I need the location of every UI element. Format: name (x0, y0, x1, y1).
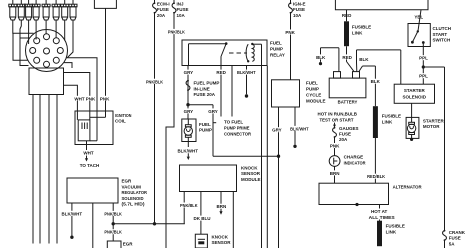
distributor pickup wire 4 (56, 95, 58, 244)
wire PNK to charge indicator (334, 137, 336, 155)
distributor cap terminal (bottom) (44, 61, 50, 67)
fuse CRANK 5A (441, 230, 448, 241)
label RED (342, 54, 352, 60)
distributor cap terminal (top) (44, 34, 50, 40)
svg-text:BRN: BRN (217, 204, 227, 209)
fuel pump box (182, 119, 196, 142)
svg-text:20A: 20A (339, 137, 348, 142)
spark plug wire connector 2 (17, 0, 25, 20)
wire BLK/WHT cycle module ground (293, 107, 296, 148)
svg-text:PNK: PNK (100, 96, 110, 101)
svg-text:ECM-I: ECM-I (157, 1, 170, 6)
label STARTER SOLENOID (403, 88, 427, 99)
svg-text:COIL: COIL (115, 119, 126, 124)
battery (329, 72, 366, 98)
svg-text:LINK: LINK (386, 229, 397, 234)
label GAUGES FUSE 20A (339, 126, 359, 142)
fuse INJ 10A (172, 0, 176, 14)
label FUEL PUMP (199, 122, 212, 133)
svg-text:PUMP: PUMP (199, 128, 212, 133)
label PPL (419, 73, 429, 79)
wire RED from ignition switch (346, 10, 348, 21)
wire BLK/WHT EGR ground (70, 203, 73, 239)
svg-text:YEL: YEL (414, 14, 423, 19)
svg-text:FUSE 20A: FUSE 20A (194, 92, 216, 97)
spark plug wire connector 1 (9, 0, 17, 20)
label IGN-E FUSE 10A (293, 1, 306, 18)
ignition coil box (75, 111, 113, 145)
svg-text:(5.7L H/D): (5.7L H/D) (122, 202, 146, 207)
wire INJ fuse down (166, 13, 174, 248)
wire GRY tap to prime connector (186, 103, 216, 156)
wire PNK IGN-E fuse to cycle module (290, 13, 292, 80)
fuse ECM-I 20A (153, 0, 157, 14)
wire PPL branch to crank fuse (423, 67, 444, 248)
label RED (216, 70, 227, 76)
svg-text:STARTER: STARTER (423, 118, 445, 123)
wire RED relay output (220, 66, 222, 117)
label PNK (100, 96, 110, 102)
spark plug wire 4 (35, 20, 37, 40)
label PNK/BLK (180, 203, 199, 209)
svg-text:SWITCH: SWITCH (433, 38, 451, 43)
svg-text:PNK/BLK: PNK/BLK (180, 203, 198, 208)
starter motor (406, 117, 419, 138)
svg-text:RED: RED (342, 55, 352, 60)
distributor pickup wire 1 (32, 95, 34, 244)
label CHARGE INDICATOR (344, 155, 367, 166)
svg-text:TEST OR START: TEST OR START (320, 117, 354, 122)
ignition coil primary winding (78, 120, 90, 141)
svg-text:FUSE: FUSE (293, 7, 305, 12)
label PNK (285, 30, 296, 36)
wire alternator output down (379, 205, 381, 221)
wire distributor to coil (lower) (64, 85, 78, 120)
fuse GAUGES 20A (333, 127, 337, 138)
fuel pump motor symbol (184, 119, 192, 142)
svg-text:FUSE: FUSE (339, 132, 351, 137)
svg-text:SOLENOID: SOLENOID (403, 94, 427, 99)
svg-text:TO FUEL: TO FUEL (224, 120, 243, 125)
svg-text:BRN: BRN (330, 171, 340, 176)
distributor body (29, 68, 64, 95)
coil tach output wire (86, 141, 88, 150)
label PNK (86, 96, 96, 102)
svg-text:GRY: GRY (184, 109, 194, 114)
alternator ground junction dot (355, 203, 358, 206)
spark plug wire connector 3 (25, 0, 33, 20)
label FUEL PUMP CYCLE MODULE (306, 81, 326, 104)
wire PNK/BLK from ECM-I fuse (154, 13, 156, 224)
label BRN (329, 170, 340, 176)
svg-text:ALL TIMES: ALL TIMES (369, 215, 395, 220)
label FUSIBLE LINK (352, 25, 371, 36)
label PNK/BLK (146, 79, 164, 85)
label HOT IN RUN,BULB TEST OR START (318, 112, 358, 123)
svg-text:FUSIBLE: FUSIBLE (386, 224, 405, 229)
wire BLK battery to starter solenoid (357, 50, 401, 72)
svg-text:SOLENOID: SOLENOID (122, 196, 145, 201)
knock sensor module box (180, 165, 237, 192)
label FUSIBLE LINK (386, 224, 405, 235)
spark plug wire connector 6 (52, 0, 60, 20)
label IGNITION COIL (115, 113, 131, 124)
label WHT (74, 96, 84, 102)
svg-text:FUSIBLE: FUSIBLE (382, 114, 401, 119)
gauges feed arrow (333, 123, 336, 128)
fusible link (RED) (344, 21, 349, 46)
distributor cap (26, 30, 68, 72)
svg-text:FUSIBLE: FUSIBLE (352, 25, 371, 30)
wire cap stub (64, 63, 72, 68)
spark plug wire 3 (28, 20, 30, 44)
wire BRN knock module arrow (219, 192, 222, 215)
spark plug wire 7 (64, 20, 66, 41)
svg-text:PNK/BLK: PNK/BLK (168, 30, 186, 35)
wire PNK/BLK EGR to TVS (112, 203, 115, 241)
label FUEL PUMP RELAY (270, 40, 285, 57)
svg-text:IGN-E: IGN-E (293, 1, 306, 6)
label ECM-I FUSE 20A (157, 1, 170, 18)
svg-text:EGR: EGR (122, 179, 133, 184)
distributor cap terminal (right) (57, 48, 63, 54)
svg-text:CLUTCH: CLUTCH (433, 26, 452, 31)
EGR TVS box (107, 241, 121, 248)
wire EGR solenoid middle (92, 203, 94, 248)
ignition switch box (top) (335, 0, 428, 10)
charge indicator (329, 156, 340, 167)
wire cap to coil (PNK upper) (66, 58, 97, 111)
label GRY (183, 70, 193, 76)
wire BLK battery to fusible link (359, 66, 376, 106)
wire BLK/WHT relay ground (245, 66, 248, 98)
distributor cap terminal (lower left) (34, 57, 40, 63)
svg-text:FUEL: FUEL (306, 81, 318, 86)
svg-text:FUSE: FUSE (157, 7, 169, 12)
wire BLK/WHT pump ground arrow (187, 142, 190, 161)
wire PNK module to coil (105, 8, 107, 111)
svg-text:SENSOR: SENSOR (241, 171, 261, 176)
svg-text:KNOCK: KNOCK (241, 165, 258, 170)
wire RED to battery positive (347, 46, 355, 71)
svg-text:GAUGES: GAUGES (339, 126, 359, 131)
svg-text:BLK/WHT: BLK/WHT (290, 126, 309, 131)
svg-text:PUMP PRIME: PUMP PRIME (224, 126, 250, 131)
label KNOCK SENSOR MODULE (241, 165, 261, 182)
svg-text:PNK/BLK: PNK/BLK (146, 79, 164, 84)
label GRY (183, 108, 193, 114)
svg-text:CONNECTOR: CONNECTOR (224, 132, 252, 137)
label BLK (316, 54, 326, 60)
fuel pump relay box (182, 40, 267, 66)
svg-text:MOTOR: MOTOR (423, 124, 440, 129)
svg-text:FUEL: FUEL (270, 40, 282, 45)
label BLK/WHT (290, 126, 310, 131)
svg-text:REGULATOR: REGULATOR (122, 190, 148, 195)
svg-text:RED/BLK: RED/BLK (367, 174, 386, 179)
spark plug wire 1 (loops to cap left) (13, 20, 34, 60)
label RED/BLK (367, 174, 386, 180)
svg-text:VACUUM: VACUUM (122, 184, 142, 189)
svg-text:RELAY: RELAY (270, 52, 285, 57)
svg-text:HOT IN RUN,BULB: HOT IN RUN,BULB (318, 112, 358, 117)
svg-text:CRANK: CRANK (449, 230, 466, 235)
label PNK/BLK (104, 211, 123, 217)
svg-text:STARTER: STARTER (404, 88, 426, 93)
svg-text:KNOCK: KNOCK (212, 234, 229, 239)
fuel pump cycle module box (272, 80, 300, 107)
spark plug wire connector 4 (32, 0, 40, 20)
svg-text:FUSE: FUSE (449, 236, 461, 241)
label BLK/WHT (61, 211, 83, 217)
svg-text:PNK: PNK (86, 96, 96, 101)
label DK BLU (194, 216, 211, 222)
svg-text:EGR: EGR (123, 242, 134, 247)
relay coil (246, 43, 261, 66)
label STARTER MOTOR (423, 118, 445, 129)
svg-text:GRY: GRY (272, 128, 282, 133)
knock sensor (195, 234, 207, 248)
svg-text:PUMP: PUMP (270, 46, 283, 51)
label CRANK FUSE 5A (449, 230, 466, 247)
wire relay right down (266, 66, 268, 248)
svg-text:HOT AT: HOT AT (371, 209, 387, 214)
distributor cap terminal (upper left) (34, 38, 40, 44)
fusible link (alternator) (377, 221, 382, 247)
svg-text:FUEL: FUEL (199, 122, 211, 127)
distributor cap terminal (left) (30, 48, 36, 54)
wire knock module inner output (232, 192, 234, 248)
svg-text:PNK: PNK (330, 144, 340, 149)
label FUEL PUMP IN-LINE FUSE 20A (194, 81, 220, 97)
wire DK BLU to knock sensor (200, 192, 202, 235)
coil internal connection (90, 111, 106, 141)
label WHT (83, 150, 94, 156)
label GRY (272, 127, 282, 133)
wire relay coil feed down (261, 66, 263, 248)
spark plug wire connector 5 (42, 0, 50, 20)
label PNK/BLK (167, 29, 187, 35)
label CLUTCH START SWITCH (433, 26, 452, 42)
svg-text:BLK/WHT: BLK/WHT (62, 211, 83, 216)
wire bus PNK/BLK junction (113, 222, 185, 225)
svg-text:10A: 10A (177, 13, 186, 18)
svg-text:TO TACH: TO TACH (80, 163, 100, 168)
svg-text:5A: 5A (449, 241, 456, 246)
label YEL (413, 14, 425, 20)
spark plug wire 8 (68, 20, 74, 58)
label BLK (371, 79, 381, 85)
wire GRY cycle module down (213, 107, 280, 248)
svg-text:LINK: LINK (352, 30, 363, 35)
wire GRY relay to pump fuse (187, 66, 189, 120)
wire YEL ignition switch to clutch switch (418, 10, 421, 31)
svg-text:PNK/BLK: PNK/BLK (104, 230, 122, 235)
svg-text:WHT: WHT (83, 151, 93, 156)
label BLK/WHT (177, 148, 199, 154)
wire solenoid to starter motor (411, 103, 413, 117)
svg-text:IGNITION: IGNITION (115, 113, 131, 118)
svg-text:PNK: PNK (285, 30, 295, 35)
wire PPL clutch switch down (422, 47, 425, 85)
svg-text:BLK: BLK (316, 55, 326, 60)
svg-text:PNK/BLK: PNK/BLK (104, 211, 122, 216)
svg-text:PUMP: PUMP (306, 87, 319, 92)
relay dashed link (229, 52, 247, 54)
wire BRN to alternator (334, 166, 336, 183)
spark plug wire connector 8 (69, 0, 77, 20)
tach wire arrow (85, 156, 88, 162)
distributor cap center terminal (44, 48, 50, 54)
distributor cap terminal (upper right) (53, 38, 59, 44)
label PNK/BLK (104, 229, 123, 235)
wire BLK into starter solenoid (400, 50, 402, 84)
svg-text:MODULE: MODULE (306, 99, 326, 104)
distributor pickup wire 3 (48, 95, 50, 244)
starter motor ground dot (410, 138, 413, 141)
EGR vacuum regulator solenoid box (67, 178, 118, 203)
svg-text:BATTERY: BATTERY (338, 99, 358, 104)
svg-text:WHT: WHT (74, 96, 84, 101)
label BRN (216, 204, 227, 210)
label INJ FUSE 10A (177, 1, 189, 18)
spark plug wire 6 (55, 20, 57, 38)
label PNK (329, 143, 340, 149)
label PPL (419, 55, 429, 61)
fuse fuel pump in-line 20A (186, 80, 190, 91)
svg-text:START: START (433, 32, 448, 37)
label BLK/WHT (237, 70, 257, 76)
svg-text:BLK/WHT: BLK/WHT (177, 148, 198, 153)
svg-text:PPL: PPL (419, 74, 428, 79)
wire relay output (inner) (231, 66, 233, 117)
label KNOCK SENSOR (212, 234, 232, 245)
svg-text:BLK: BLK (359, 57, 369, 62)
svg-text:RED: RED (216, 70, 226, 75)
distributor cap terminal (lower right) (53, 57, 59, 63)
label TO FUEL PUMP PRIME CONNECTOR (224, 120, 252, 137)
svg-text:10A: 10A (293, 13, 302, 18)
svg-text:ALTERNATOR: ALTERNATOR (393, 185, 423, 190)
label FUSIBLE LINK (382, 114, 401, 125)
svg-text:CYCLE: CYCLE (306, 93, 321, 98)
svg-text:20A: 20A (157, 13, 166, 18)
battery negative wire to ground (319, 48, 339, 72)
svg-text:INJ: INJ (177, 1, 185, 6)
label HOT AT ALL TIMES (368, 209, 396, 220)
relay switch (189, 42, 228, 65)
svg-text:BLK: BLK (371, 79, 381, 84)
svg-text:FUEL PUMP: FUEL PUMP (194, 81, 220, 86)
svg-text:LINK: LINK (382, 120, 393, 125)
spark plug wire connector 7 (61, 0, 69, 20)
svg-text:CHARGE: CHARGE (344, 155, 364, 160)
svg-text:GRY: GRY (208, 109, 218, 114)
svg-text:FUSE: FUSE (177, 7, 189, 12)
distributor pickup wire 2 (39, 95, 41, 244)
svg-text:MODULE: MODULE (241, 177, 261, 182)
spark plug wire 5 (45, 20, 47, 34)
svg-text:SENSOR: SENSOR (212, 240, 232, 245)
alternator box (319, 183, 389, 204)
svg-text:INDICATOR: INDICATOR (344, 160, 367, 165)
svg-text:GRY: GRY (184, 70, 194, 75)
svg-text:DK BLU: DK BLU (194, 216, 211, 221)
fuse IGN-E 10A (289, 0, 293, 14)
wire WHT distributor to coil (64, 73, 90, 120)
svg-text:PPL: PPL (419, 56, 428, 61)
svg-text:BLK/WHT: BLK/WHT (237, 70, 256, 75)
fusible link (battery to alternator) (373, 106, 378, 138)
wire PNK/BLK knock module (183, 192, 185, 224)
label EGR VACUUM REGULATOR SOLENOID (5.7L H/D) (122, 179, 148, 207)
label GRY (208, 108, 218, 114)
wire RED/BLK to alternator (374, 138, 376, 183)
module box at top (94, 0, 116, 8)
svg-text:IN-LINE: IN-LINE (194, 86, 210, 91)
starter solenoid box (394, 84, 434, 103)
clutch start switch (408, 24, 430, 47)
spark plug wire 2 (loops to cap lower-left) (20, 20, 30, 66)
